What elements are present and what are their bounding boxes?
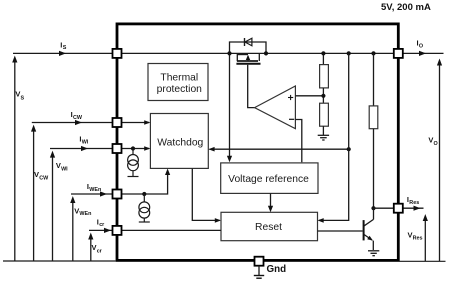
wire R2 to ground xyxy=(322,126,324,135)
port Is xyxy=(113,49,122,58)
op-amp + pin xyxy=(288,95,293,100)
wire IWEn input xyxy=(71,193,113,195)
svg-text:CW: CW xyxy=(39,175,49,181)
node sense branch xyxy=(347,147,351,151)
arrow Vcw xyxy=(33,129,35,261)
main supply wire (input to output rail) xyxy=(121,52,394,54)
wire Io output xyxy=(403,52,444,54)
block Watchdog xyxy=(150,114,208,169)
node collector xyxy=(371,206,375,210)
svg-text:WI: WI xyxy=(82,139,89,145)
wire supply to voltage reference xyxy=(229,53,231,158)
block Reset xyxy=(221,212,318,240)
transistor Q3 (reset output npn) xyxy=(364,208,374,250)
port Icr xyxy=(113,226,122,235)
arrow Vcr xyxy=(90,237,92,261)
svg-text:CW: CW xyxy=(73,115,83,121)
wire Gnd stub xyxy=(258,266,260,275)
ground Gnd pin xyxy=(254,276,264,279)
node main rail at divider xyxy=(321,51,325,55)
svg-text:protection: protection xyxy=(157,84,202,95)
wire watchdog to reset xyxy=(192,169,219,221)
pass transistor M1 (p-MOSFET) xyxy=(236,53,260,63)
resistor R2 xyxy=(320,103,329,126)
svg-text:cr: cr xyxy=(97,248,103,254)
current source Q2 (window enable bias) xyxy=(139,194,150,222)
wire IRes output xyxy=(403,207,424,209)
svg-text:WEn: WEn xyxy=(79,211,91,217)
svg-text:WI: WI xyxy=(61,166,68,172)
arrow Vo xyxy=(439,63,441,261)
svg-text:O: O xyxy=(419,43,423,49)
wire IWEn port to watchdog bottom xyxy=(121,172,168,194)
current source Q1 (watchdog bias) xyxy=(128,149,139,177)
wire Icr input xyxy=(89,229,113,231)
wire reset output to Q3 base xyxy=(318,230,363,232)
ground reference line right xyxy=(400,260,446,262)
wire Iwi port to watchdog xyxy=(121,148,149,150)
port Io xyxy=(394,49,403,58)
wire collector node to IRes port xyxy=(374,207,395,209)
port IRes xyxy=(394,204,403,213)
wire op-amp + input to divider tap xyxy=(295,95,323,97)
wire op-amp - input to voltage reference xyxy=(295,120,301,163)
wire Icw input xyxy=(32,122,113,124)
arrow Vwi xyxy=(52,155,54,261)
op-amp - pin xyxy=(289,118,294,120)
wire R3 branch xyxy=(373,53,375,106)
resistor R1 xyxy=(320,65,329,88)
wire voltage reference to reset xyxy=(270,193,272,208)
svg-text:Reset: Reset xyxy=(255,222,282,233)
resistor R3 xyxy=(369,106,378,129)
node Iwi bias tap xyxy=(131,146,135,150)
port Gnd xyxy=(255,257,264,266)
wire Is input xyxy=(13,52,113,54)
node main rail at R3 branch xyxy=(371,51,375,55)
node IWEn bias tap xyxy=(142,192,146,196)
ground reference line left xyxy=(3,260,116,262)
svg-text:WEn: WEn xyxy=(89,187,101,193)
node main rail at diode anode xyxy=(227,51,231,55)
wire watchdog sense input xyxy=(210,148,349,150)
op-amp U1 xyxy=(255,86,296,129)
wire Iwi input xyxy=(50,148,113,150)
wire M1 gate to op-amp output xyxy=(248,65,255,108)
svg-text:5V, 200 mA: 5V, 200 mA xyxy=(381,2,431,13)
reverse diode D1 loop wires xyxy=(230,42,267,53)
wire Icr port to reset xyxy=(121,229,221,231)
svg-text:Res: Res xyxy=(409,200,419,206)
port Icw xyxy=(113,118,122,127)
svg-text:S: S xyxy=(21,95,25,101)
ground Q3 emitter xyxy=(368,251,379,256)
arrow VWEn xyxy=(72,201,74,262)
svg-text:Watchdog: Watchdog xyxy=(157,137,203,148)
block Voltage reference xyxy=(221,163,318,194)
arrow Vs xyxy=(14,60,16,261)
svg-text:Gnd: Gnd xyxy=(267,264,287,275)
port Iwi xyxy=(113,144,122,153)
svg-text:O: O xyxy=(434,141,438,147)
node main rail at sense branch xyxy=(347,51,351,55)
wire R1 to R2 xyxy=(322,88,324,103)
wire R3 to collector node xyxy=(373,129,375,209)
svg-text:S: S xyxy=(63,45,67,51)
wire divider chain xyxy=(322,53,324,64)
arrow VRes xyxy=(424,219,426,262)
svg-text:Thermal: Thermal xyxy=(160,73,198,84)
IC boundary box xyxy=(117,24,398,261)
wire Icw port to watchdog xyxy=(121,122,149,124)
svg-text:cr: cr xyxy=(99,222,105,228)
diode D1 xyxy=(245,38,252,46)
wire output sense branch xyxy=(319,53,349,220)
block Thermal protection xyxy=(148,64,208,101)
ground divider xyxy=(318,135,329,140)
node main rail at diode cathode xyxy=(264,51,268,55)
port IWEn xyxy=(113,190,122,199)
svg-text:Voltage reference: Voltage reference xyxy=(228,174,309,185)
node divider tap xyxy=(321,94,325,98)
svg-text:Res: Res xyxy=(413,236,423,242)
